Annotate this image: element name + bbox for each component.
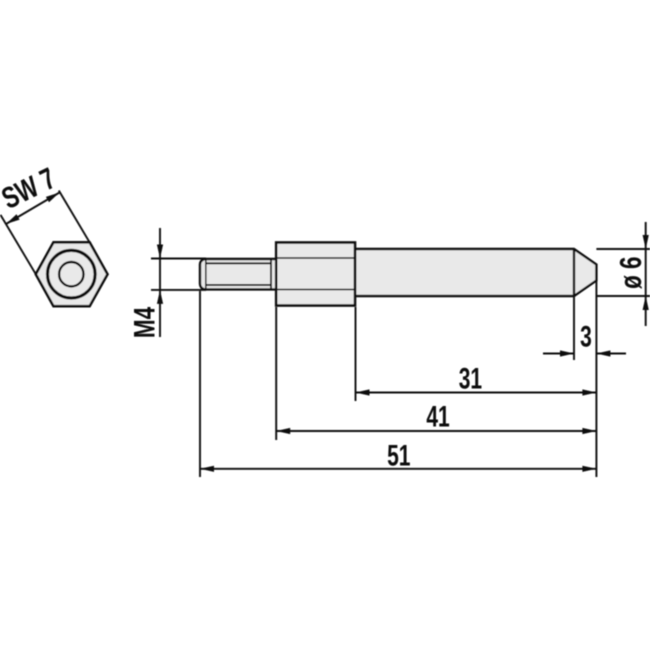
inner circle (hole) xyxy=(59,262,83,286)
hex end view xyxy=(36,242,108,306)
dia 6 dimension line xyxy=(643,222,649,326)
dia 6 extension line top xyxy=(596,248,650,250)
collar left extension line xyxy=(275,307,277,440)
thread minor diameter line top xyxy=(206,262,271,264)
threaded stud M4 (side view, left end) xyxy=(200,259,278,289)
M4 extension line top xyxy=(151,258,206,260)
svg-text:SW 7: SW 7 xyxy=(0,161,61,216)
tip extension line xyxy=(595,281,597,477)
svg-text:M4: M4 xyxy=(127,307,161,338)
svg-text:ø 6: ø 6 xyxy=(613,257,647,289)
dimension 3 xyxy=(543,350,626,356)
collar hex edge line bottom xyxy=(278,289,355,291)
SW7 extension line A (from left vertex) xyxy=(1,215,36,274)
dimension 41 xyxy=(276,428,596,434)
SW7 dimension arrow xyxy=(6,193,60,225)
svg-text:41: 41 xyxy=(426,401,449,433)
M4 dimension line xyxy=(157,228,163,337)
SW7 extension line B (from top-right corner) xyxy=(59,191,90,243)
thread left extension line xyxy=(199,291,201,477)
M4 extension line bottom xyxy=(151,289,206,291)
outer circle (thread major) xyxy=(48,250,96,298)
collar hex edge line top xyxy=(278,257,355,259)
dimension 51 xyxy=(200,466,596,472)
dimension 31 xyxy=(356,389,597,395)
thread runout line xyxy=(270,260,272,290)
collar right extension line xyxy=(355,307,357,401)
thread minor diameter line bottom xyxy=(206,284,271,286)
hex collar (side view) xyxy=(276,243,355,306)
chamfer start extension line xyxy=(573,296,575,360)
dia 6 extension line bottom xyxy=(596,295,650,297)
svg-text:31: 31 xyxy=(459,363,482,395)
cylindrical shaft with chamfered tip (side view, right) xyxy=(355,249,596,296)
svg-text:51: 51 xyxy=(387,440,410,472)
svg-text:3: 3 xyxy=(580,321,592,353)
chamfer start line xyxy=(573,250,575,296)
thread chamfer line xyxy=(205,259,207,289)
